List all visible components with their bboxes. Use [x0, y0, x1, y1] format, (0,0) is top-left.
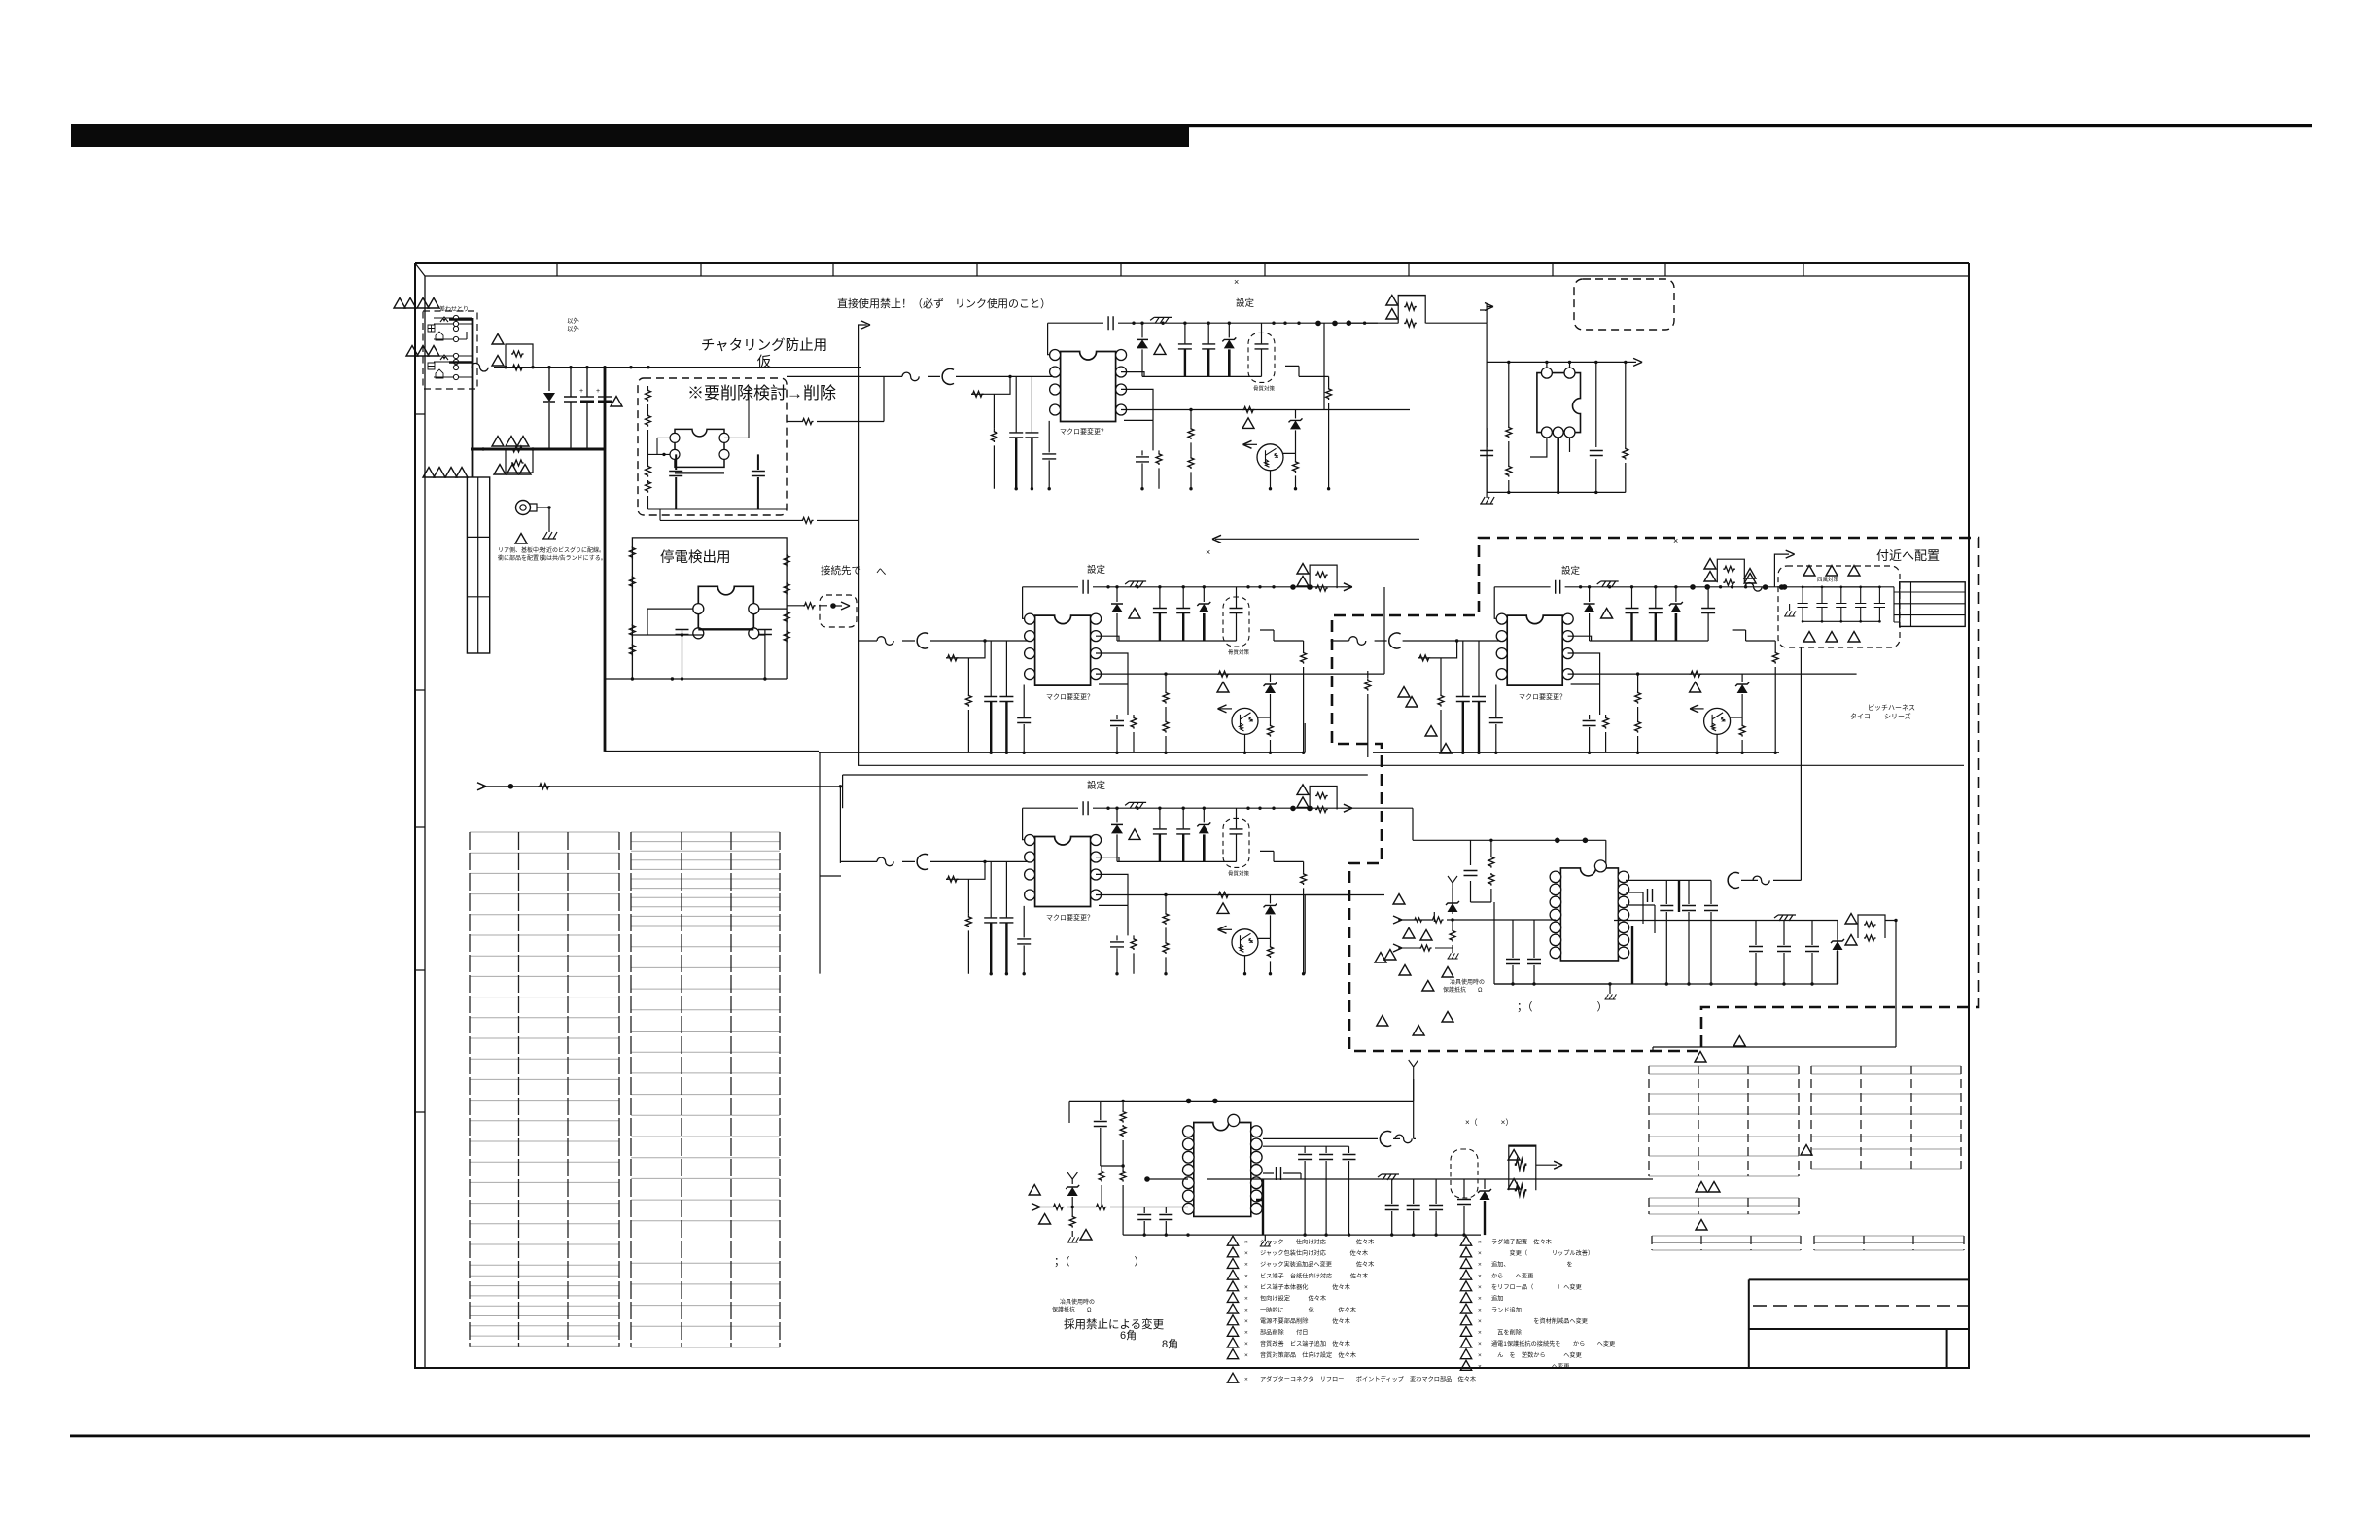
svg-text:ビス端子 台紙仕向け対応 佐々木: ビス端子 台紙仕向け対応 佐々木 — [1260, 1272, 1368, 1279]
svg-text:以外: 以外 — [567, 316, 580, 325]
opto IC U2 in P — [693, 586, 759, 639]
svg-text:接続先で: 接続先で — [821, 564, 861, 577]
zener diode ZD2 — [1270, 674, 1272, 682]
cap left — [1464, 871, 1478, 876]
capacitor bank — [1015, 376, 1017, 432]
IC U6 — [1183, 1114, 1263, 1216]
triangles above ground bus — [492, 437, 504, 447]
svg-text:×: × — [1244, 1307, 1248, 1313]
ground symbol — [542, 532, 557, 539]
main vertical bus x=883.6 — [858, 328, 860, 765]
bottom bus of block T — [1487, 491, 1626, 493]
triangles below bus — [494, 465, 506, 475]
capacitors C filter — [1159, 808, 1161, 828]
capacitors C filter — [1159, 587, 1161, 608]
svg-text:冶具使用時の: 冶具使用時の — [1060, 1298, 1095, 1306]
wire chain block3 to right — [1305, 895, 1347, 974]
inductor L — [917, 854, 928, 869]
scattered triangles right of block4 — [1406, 697, 1417, 708]
svg-text:ジャック包装仕向け対応 佐々木: ジャック包装仕向け対応 佐々木 — [1260, 1249, 1368, 1257]
svg-text:衝は共/告ランドにする。: 衝は共/告ランドにする。 — [541, 554, 607, 562]
triangle near ground — [515, 534, 527, 544]
component table left A — [470, 832, 619, 1346]
zener diode ZD — [1203, 587, 1205, 602]
revision table R1 — [1649, 1066, 1799, 1176]
svg-text:ん を 逆数から へ変更: ん を 逆数から へ変更 — [1491, 1351, 1582, 1359]
capacitor at U2 left — [676, 630, 689, 635]
top rule line — [1189, 124, 2312, 127]
resistor R feedback — [946, 641, 985, 692]
svg-text:音質対策部品 仕向け設定 佐々木: 音質対策部品 仕向け設定 佐々木 — [1260, 1351, 1356, 1359]
inductor L — [917, 633, 928, 648]
svg-text:から へ変更: から へ変更 — [1491, 1272, 1533, 1279]
long wire y=808.8 with input arrow — [482, 786, 840, 787]
right side caps of block5 — [1626, 880, 1711, 984]
vertical feed x=864.4 to block3 input — [839, 787, 841, 863]
svg-text:+: + — [579, 388, 583, 395]
op-amp U converter IC — [1496, 613, 1573, 685]
fuse F1 — [472, 363, 488, 371]
lower caps row right of block5 — [1614, 921, 1837, 985]
converter block 1 (top) — [884, 316, 1410, 490]
sub: output right leg — [1774, 641, 1776, 752]
resistor pair at output — [1509, 1146, 1536, 1196]
svg-text:×: × — [1478, 1296, 1482, 1303]
diode D — [1116, 587, 1118, 602]
svg-text:ジャック 仕向け対応 佐々木: ジャック 仕向け対応 佐々木 — [1260, 1238, 1374, 1245]
bold dashed region A (isolated supply area) — [1332, 538, 1978, 1051]
capacitor in output rail — [1556, 580, 1560, 594]
resistor pair RP-T — [1398, 296, 1425, 327]
revision table R4 — [1652, 1236, 1801, 1250]
sub: output right leg — [1303, 641, 1305, 752]
ground bus junction dots — [990, 972, 993, 975]
ground bus junction dots — [990, 752, 993, 754]
svg-text:仮: 仮 — [757, 354, 772, 370]
connector pin circles — [453, 315, 458, 320]
svg-text:チャタリング防止用: チャタリング防止用 — [701, 337, 827, 354]
link from B3 top arrow to B5 — [1352, 808, 1471, 840]
output connector CN2 — [1900, 582, 1966, 627]
vertical with arrow at x=1529 — [1480, 304, 1487, 323]
svg-text:部品削除 付日: 部品削除 付日 — [1260, 1329, 1309, 1337]
wire from block6 top to left — [1069, 1101, 1101, 1123]
svg-text:；（ ）: ；（ ） — [1517, 1000, 1608, 1013]
rail bend to bus — [605, 751, 819, 752]
triangle row lower-left — [423, 468, 435, 478]
svg-text:変更（ リップル改善）: 変更（ リップル改善） — [1491, 1249, 1593, 1257]
revision table R2 — [1811, 1066, 1961, 1169]
svg-text:×: × — [1244, 1239, 1248, 1245]
fuse F — [902, 372, 919, 381]
wire rail to pin1 — [1494, 587, 1500, 619]
top wire — [1471, 840, 1606, 865]
fuse F — [877, 637, 893, 646]
svg-text:包向け設定 佐々木: 包向け設定 佐々木 — [1260, 1295, 1326, 1303]
svg-text:×: × — [1478, 1239, 1482, 1245]
junction dots on input wire — [504, 366, 507, 368]
wire to IC T — [1487, 323, 1636, 492]
jack J2 — [440, 355, 448, 360]
resistors right edge of P — [784, 554, 789, 567]
fuse F — [1349, 637, 1366, 646]
capacitor C2 (polarized) — [586, 367, 588, 449]
thick pin leads — [1256, 1179, 1263, 1235]
thick ground bus y=462 — [471, 448, 605, 451]
title bar (black) — [71, 124, 1189, 147]
svg-text:追加、 を: 追加、 を — [1491, 1261, 1573, 1269]
input wire left — [1398, 919, 1556, 921]
svg-text:×: × — [1478, 1352, 1482, 1359]
svg-text:×: × — [1244, 1376, 1248, 1382]
svg-text:設定: 設定 — [1087, 780, 1106, 791]
jack J1 — [440, 317, 448, 322]
title block dashed row — [1753, 1305, 1969, 1307]
output wire of P to connect-destination — [787, 605, 827, 607]
wire input net — [884, 375, 1054, 377]
mid bus y=1213 — [1207, 1178, 1653, 1180]
svg-text:骨質対策: 骨質対策 — [1253, 384, 1276, 392]
dashed box delete-review block — [638, 378, 787, 515]
frame top border zone ticks — [557, 263, 1803, 276]
zener diode ZD — [1228, 323, 1230, 337]
connector small symbols — [428, 325, 435, 332]
svg-text:×: × — [1234, 277, 1239, 287]
fuse F — [877, 857, 893, 866]
svg-text:×: × — [1244, 1250, 1248, 1257]
svg-text:瓦を削除: 瓦を削除 — [1491, 1329, 1522, 1337]
svg-text:；（ ）: ；（ ） — [1054, 1255, 1145, 1268]
svg-text:以外: 以外 — [567, 324, 580, 332]
cap horizontal near IC right — [1648, 889, 1653, 902]
blackout box bottom bus — [605, 678, 787, 680]
svg-text:をリフロー品（ ）へ変更: をリフロー品（ ）へ変更 — [1491, 1283, 1582, 1291]
wire to ground — [548, 507, 550, 532]
zener diode ZD2 — [1295, 409, 1297, 418]
wire from delete-review box to block1 input — [787, 376, 884, 421]
inductor L — [1389, 633, 1401, 648]
svg-text:8角: 8角 — [1162, 1338, 1178, 1350]
ground stub — [1609, 984, 1611, 994]
svg-text:×: × — [1478, 1330, 1482, 1337]
wire input net — [858, 860, 1029, 862]
caps below IC — [1513, 920, 1534, 984]
top-right regulator block — [1347, 296, 1643, 505]
big junction dot — [1144, 1176, 1150, 1182]
triangles above caps grid — [1803, 566, 1815, 577]
svg-text:※要削除検討→削除: ※要削除検討→削除 — [687, 384, 836, 402]
dashed box input connector group — [423, 311, 477, 389]
op-amp U converter IC — [1050, 349, 1127, 421]
wires around U2 — [632, 609, 787, 679]
power ground symbol — [1125, 581, 1146, 587]
wire input net — [858, 640, 1029, 642]
svg-text:追加: 追加 — [1491, 1295, 1503, 1303]
sub: output right leg — [1328, 376, 1330, 488]
right vertical to zener Y — [1413, 1079, 1415, 1101]
svg-text:へ変更: へ変更 — [1491, 1363, 1569, 1371]
capacitor in output rail — [1108, 316, 1113, 330]
bottom bus — [1123, 1234, 1481, 1236]
small resistor arrows lower left of block5 — [1367, 671, 1369, 757]
capacitor bank — [1462, 641, 1464, 696]
svg-text:直接使用禁止！（必ず リンク使用のこと）: 直接使用禁止！（必ず リンク使用のこと） — [837, 297, 1051, 310]
svg-text:×: × — [1478, 1341, 1482, 1347]
sub: resistor pair at output top right — [1310, 787, 1337, 813]
svg-text:×: × — [1244, 1330, 1248, 1337]
diode D1 — [548, 367, 550, 391]
svg-text:×: × — [1244, 1284, 1248, 1291]
svg-text:音質改善 ビス端子追加 佐々木: 音質改善 ビス端子追加 佐々木 — [1260, 1340, 1350, 1347]
svg-text:×: × — [1478, 1262, 1482, 1269]
ground at caps grid — [1789, 604, 1791, 611]
dashed oval cap + diode at output — [1463, 1179, 1465, 1235]
svg-text:×: × — [1244, 1296, 1248, 1303]
diode D — [1116, 808, 1118, 822]
svg-text:×: × — [1244, 1341, 1248, 1347]
svg-text:設定: 設定 — [1561, 565, 1581, 577]
frame inner border — [425, 276, 1969, 1368]
capacitor C1 — [570, 367, 572, 449]
frame corner bevel — [415, 263, 425, 276]
transistor Q — [1232, 929, 1258, 956]
capacitors C filter — [1184, 323, 1186, 343]
svg-text:保護抵抗 Ω: 保護抵抗 Ω — [1443, 986, 1483, 994]
svg-text:一時的に 化 佐々木: 一時的に 化 佐々木 — [1260, 1306, 1356, 1313]
svg-text:電源不要部品削除 佐々木: 電源不要部品削除 佐々木 — [1260, 1317, 1350, 1325]
block4 top wire extension to connector — [1824, 586, 1894, 588]
svg-text:マクロ要変更？: マクロ要変更？ — [1519, 692, 1566, 701]
svg-text:×: × — [1478, 1284, 1482, 1291]
resistor pair RP4 — [1717, 559, 1744, 585]
bottom bus of block5 — [1494, 983, 1837, 985]
wire output rail — [1023, 807, 1341, 809]
dashed box top right spare — [1574, 279, 1674, 330]
svg-text:×: × — [1478, 1318, 1482, 1325]
transistor Q — [1232, 708, 1258, 734]
caps in delete-review box — [669, 472, 682, 476]
zener diode ZD2 — [1270, 895, 1272, 904]
junction dots — [1106, 585, 1109, 588]
svg-text:設定: 設定 — [1236, 297, 1255, 309]
wire from block5 right vertical down — [1653, 1047, 1896, 1051]
frame left border zone ticks — [415, 414, 425, 1112]
svg-text:×: × — [1244, 1273, 1248, 1279]
revision notes column 1 — [1227, 1236, 1476, 1382]
left vertical x=843 for block3 — [820, 752, 841, 973]
svg-text:×: × — [1478, 1364, 1482, 1371]
revision table R5 — [1814, 1236, 1964, 1250]
main input wire y=377.7 — [472, 367, 861, 368]
svg-text:リア側、基板中央: リア側、基板中央 — [498, 546, 544, 554]
scattered triangles below block4 — [1384, 950, 1396, 961]
svg-text:差わせとり: 差わせとり — [439, 305, 469, 313]
pgnd marker right — [1774, 915, 1796, 921]
svg-text:へ: へ — [876, 566, 887, 577]
blackout box outline P — [632, 538, 787, 679]
converter block 2 (middle) — [858, 564, 1384, 755]
C inductor at right — [1728, 872, 1739, 888]
svg-text:設定: 設定 — [1087, 564, 1106, 576]
wire output rail — [1048, 322, 1366, 324]
ground of block T — [1486, 492, 1487, 498]
wire output rail — [1023, 586, 1341, 588]
resistors left — [1488, 856, 1494, 868]
svg-text:を資材削減品へ変更: を資材削減品へ変更 — [1491, 1317, 1588, 1325]
resistor R feedback — [946, 861, 985, 913]
svg-text:+: + — [596, 388, 600, 395]
IC U5 — [1550, 860, 1629, 961]
diode D — [1589, 587, 1591, 602]
vertical link right of block2 to block4 region — [1383, 587, 1385, 674]
main audio block 6 — [1029, 1060, 1653, 1246]
arrow at top of bus — [859, 325, 867, 328]
caps row right low — [1391, 1179, 1393, 1235]
power ground symbol — [1150, 317, 1172, 323]
thick vertical pin leads — [1632, 880, 1679, 984]
svg-text:骨質対策: 骨質対策 — [1228, 648, 1250, 656]
svg-text:冶具使用時の: 冶具使用時の — [1450, 978, 1485, 986]
inter-block wire y=787.3 — [858, 764, 1964, 766]
triangles around input — [1393, 894, 1405, 905]
resistor R feedback — [971, 376, 1010, 428]
svg-text:×: × — [1244, 1318, 1248, 1325]
svg-text:付近のビスグりに配線。: 付近のビスグりに配線。 — [541, 546, 605, 554]
cap horizontal near IC right — [1277, 1167, 1281, 1180]
cap at left — [1100, 1101, 1102, 1166]
connector wires to bus — [434, 318, 472, 377]
svg-text:停電検出用: 停電検出用 — [660, 549, 731, 566]
svg-text:アダプターコネクタ リフロー ポイントディップ 変わマクロ: アダプターコネクタ リフロー ポイントディップ 変わマクロ部品 佐々木 — [1260, 1375, 1476, 1382]
junction dots — [1579, 585, 1582, 588]
resistor pair RP1 — [506, 344, 533, 370]
resistors left pair — [1120, 1110, 1126, 1123]
title block — [1749, 1279, 1969, 1368]
resistor R feedback — [1418, 641, 1457, 692]
power ground symbol — [1597, 581, 1619, 587]
capacitors C filter — [1631, 587, 1633, 608]
thick vertical bus from connector — [472, 318, 474, 449]
caps grid in place-nearby dashed box — [1802, 587, 1803, 621]
svg-text:×: × — [1478, 1250, 1482, 1257]
triangles at RP1 — [492, 334, 504, 345]
IC U3 (rotated) — [1537, 373, 1581, 433]
zener diode ZD — [1203, 808, 1205, 822]
resistor pair RP2 below bus — [506, 446, 533, 472]
triangles below caps grid — [1803, 632, 1815, 643]
svg-text:6角: 6角 — [1120, 1329, 1137, 1342]
delete-review inner components — [646, 386, 787, 509]
C + fuse to right vertical — [1380, 1131, 1391, 1146]
zener column lower — [1433, 912, 1435, 922]
thick wire from bus down to terminal strip — [472, 449, 474, 477]
svg-text:マクロ要変更？: マクロ要変更？ — [1046, 913, 1094, 922]
triangle row top-left — [394, 298, 405, 309]
svg-text:採用禁止による変更: 採用禁止による変更 — [1064, 1317, 1165, 1331]
wire y=535 from delete box to main bus — [660, 509, 859, 520]
inter-block wire y=797 — [843, 775, 1368, 808]
wire rail to pin1 — [1023, 808, 1029, 840]
bottom rule line — [70, 1435, 2310, 1438]
svg-text:骨質対策: 骨質対策 — [1228, 869, 1250, 877]
transistor Q — [1704, 708, 1731, 734]
dashed box connect-destination — [820, 595, 857, 627]
dashed box place-nearby caps — [1778, 566, 1900, 647]
transistor Q — [1257, 444, 1283, 471]
svg-text:マクロ要変更？: マクロ要変更？ — [1046, 692, 1094, 701]
zener diode ZD — [1675, 587, 1677, 602]
svg-text:ジャック実装追加品へ変更 佐々木: ジャック実装追加品へ変更 佐々木 — [1260, 1261, 1374, 1269]
svg-text:ビス端子本体器化 佐々木: ビス端子本体器化 佐々木 — [1260, 1283, 1350, 1291]
zener in lower caps row — [1837, 921, 1838, 940]
zener Y at input — [1452, 888, 1453, 914]
block3 input patch — [840, 860, 858, 862]
op-amp U converter IC — [1025, 613, 1102, 685]
isolated converter block 5 — [1375, 647, 1898, 1047]
caps right of IC row1 — [1263, 1146, 1349, 1235]
zener at input — [1067, 1172, 1077, 1179]
top wire — [1101, 1100, 1414, 1102]
wire input net — [1331, 640, 1501, 642]
ground bus junction dots — [1015, 487, 1018, 490]
svg-text:保護抵抗 Ω: 保護抵抗 Ω — [1052, 1306, 1092, 1313]
converter block 4 (right) — [1331, 580, 1857, 754]
second input arrow — [1398, 947, 1452, 949]
caps below left — [1144, 1207, 1166, 1236]
ground stub bottom — [1264, 1235, 1266, 1241]
vertical link right of block1 — [1323, 323, 1325, 409]
ground bus y=774.3 long — [819, 752, 1779, 753]
converter block 3 (lower middle) — [858, 785, 1384, 976]
capacitor in output rail — [1083, 801, 1088, 815]
svg-text:×: × — [1244, 1262, 1248, 1269]
power ground symbol — [1125, 802, 1146, 808]
op-amp U converter IC — [1025, 835, 1102, 907]
svg-text:付近へ配置: 付近へ配置 — [1876, 548, 1940, 563]
junction dots — [1106, 807, 1109, 810]
svg-text:タイコ シリーズ: タイコ シリーズ — [1850, 712, 1911, 720]
input net left — [1036, 1207, 1188, 1208]
svg-text:通電1保護抵抗の接続先を から へ変更: 通電1保護抵抗の接続先を から へ変更 — [1491, 1340, 1615, 1347]
triangle near C3 — [611, 397, 622, 407]
resistor pair box right — [1858, 915, 1885, 941]
dashed oval capacitor option 6 — [1451, 1149, 1478, 1198]
output arrow — [1536, 1164, 1557, 1166]
svg-text:×（ ×）: ×（ ×） — [1465, 1118, 1513, 1127]
triangle lower right dashed box — [1733, 1036, 1745, 1047]
left chevron on block1 return — [1215, 538, 1419, 540]
fuse on block4 top wire — [1745, 583, 1762, 592]
inductor L — [942, 368, 954, 384]
terminal strip TB1 — [467, 477, 489, 653]
svg-text:×: × — [1206, 547, 1210, 557]
triangle row mid-left — [406, 346, 418, 357]
long wire from block2 bus area down right — [1304, 723, 1306, 752]
sub: output right leg — [1303, 861, 1305, 973]
sub: resistor pair at output top right — [1310, 565, 1337, 591]
thick rail from input wire down-right — [604, 367, 607, 752]
resistors left edge of P — [629, 546, 635, 559]
capacitor bank — [990, 641, 992, 696]
wire rail to pin1 — [1048, 323, 1054, 355]
component table left B — [631, 832, 780, 1347]
opto IC U1 — [670, 429, 729, 472]
triangle near arrow — [1744, 574, 1756, 584]
svg-text:四風対策: 四風対策 — [1817, 576, 1839, 583]
capacitor bank — [990, 861, 992, 917]
capacitor in output rail — [1083, 580, 1088, 594]
svg-text:ラグ端子配置 佐々木: ラグ端子配置 佐々木 — [1491, 1238, 1552, 1245]
